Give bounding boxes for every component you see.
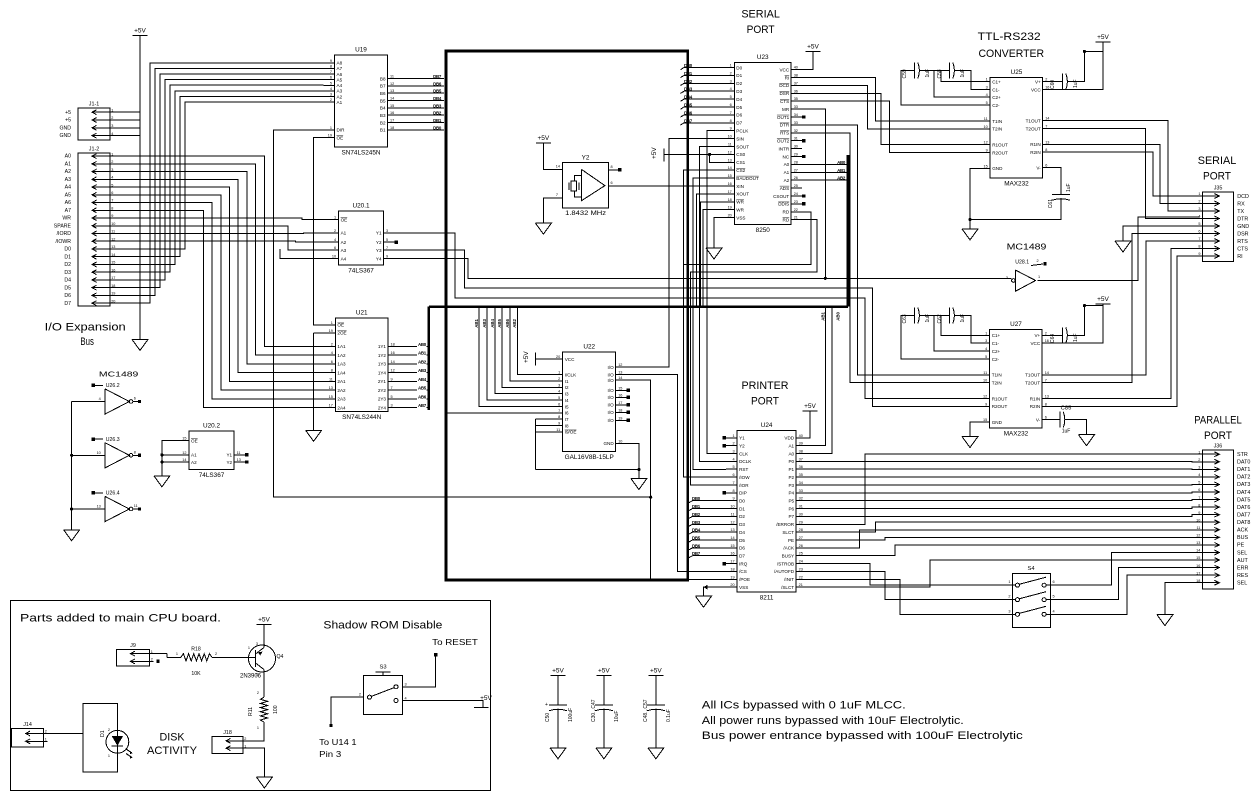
- svg-text:J14: J14: [23, 722, 32, 728]
- svg-text:D3: D3: [736, 89, 742, 94]
- svg-text:2: 2: [257, 691, 259, 695]
- wire U21 1Y to AB7: [399, 407, 417, 409]
- svg-text:CTS: CTS: [780, 99, 789, 104]
- svg-text:R1OUT: R1OUT: [992, 143, 1008, 148]
- svg-text:PORT: PORT: [1204, 430, 1232, 442]
- svg-text:1: 1: [176, 652, 178, 656]
- svg-text:20: 20: [556, 355, 560, 359]
- wire P2 to J36: [807, 476, 1199, 478]
- svg-text:C2+: C2+: [992, 349, 1001, 354]
- svg-text:C60: C60: [1050, 80, 1056, 89]
- svg-text:20: 20: [728, 214, 732, 218]
- svg-text:1uF: 1uF: [1073, 79, 1079, 88]
- svg-text:+5V: +5V: [804, 403, 816, 410]
- power +5V U23 CS0: [651, 147, 664, 162]
- svg-text:34: 34: [799, 481, 803, 485]
- svg-text:D7: D7: [736, 121, 742, 126]
- svg-text:D5: D5: [739, 538, 745, 543]
- svg-text:U25: U25: [1011, 69, 1023, 76]
- capacitors C63 C62 at U27: [901, 308, 979, 360]
- svg-text:I/O: I/O: [608, 365, 615, 370]
- svg-text:2N3906: 2N3906: [240, 674, 262, 680]
- svg-text:AB2: AB2: [837, 176, 846, 181]
- svg-text:P7: P7: [788, 514, 794, 519]
- svg-text:1.8432 MHz: 1.8432 MHz: [565, 210, 606, 217]
- svg-text:1A1: 1A1: [337, 344, 346, 349]
- svg-text:11: 11: [390, 75, 394, 79]
- svg-text:2: 2: [111, 160, 113, 164]
- wire AB4 tick to bus: [427, 380, 429, 382]
- svg-text:DAT6: DAT6: [1237, 505, 1250, 511]
- svg-text:CS1: CS1: [736, 160, 745, 165]
- svg-text:SPARE: SPARE: [54, 223, 72, 229]
- svg-text:DCD: DCD: [779, 83, 790, 88]
- svg-text:BUS: BUS: [1237, 535, 1248, 541]
- svg-text:U20.2: U20.2: [203, 423, 220, 430]
- svg-text:2: 2: [215, 652, 217, 656]
- svg-text:XIN: XIN: [736, 184, 744, 189]
- svg-text:19: 19: [728, 206, 732, 210]
- svg-text:AB4: AB4: [418, 377, 427, 382]
- svg-text:6: 6: [1045, 164, 1047, 168]
- svg-text:23: 23: [794, 200, 798, 204]
- svg-text:OUT1: OUT1: [777, 115, 790, 120]
- svg-text:3: 3: [111, 124, 113, 128]
- wire bus to U22 input 3: [495, 307, 552, 394]
- connector J14: [12, 722, 48, 747]
- wire U25 VCC to +5V: [1054, 42, 1103, 90]
- svg-text:2: 2: [359, 693, 361, 697]
- svg-text:I3: I3: [565, 392, 569, 397]
- svg-text:24: 24: [794, 192, 798, 196]
- net label AB3: [418, 368, 427, 373]
- wire DB6 to U24: [689, 548, 727, 550]
- svg-text:2A3: 2A3: [337, 397, 346, 402]
- svg-text:16: 16: [1045, 339, 1049, 343]
- svg-text:R18: R18: [191, 647, 201, 653]
- svg-text:26: 26: [799, 544, 803, 548]
- svg-text:PCLK: PCLK: [736, 129, 749, 134]
- svg-text:DB0: DB0: [684, 63, 693, 68]
- svg-text:+5V: +5V: [807, 43, 819, 50]
- wire U23 PCLK down to U24 CLK: [707, 131, 726, 454]
- svg-text:8: 8: [1045, 402, 1047, 406]
- svg-text:1: 1: [1038, 275, 1040, 279]
- label MC1489 right: [1007, 242, 1047, 252]
- svg-text:J35: J35: [1214, 186, 1223, 192]
- svg-text:29: 29: [794, 153, 798, 157]
- IC U23 8250 UART: [723, 54, 805, 234]
- svg-text:DB5: DB5: [433, 89, 442, 94]
- svg-text:27: 27: [794, 168, 798, 172]
- svg-text:2: 2: [1198, 458, 1200, 462]
- svg-text:DIR: DIR: [337, 128, 346, 133]
- svg-text:D0: D0: [736, 65, 742, 70]
- wire DB0 to U24: [689, 501, 727, 503]
- svg-text:9: 9: [558, 422, 560, 426]
- svg-text:DB1: DB1: [684, 71, 693, 76]
- svg-text:SEL: SEL: [1237, 581, 1247, 587]
- svg-text:D4: D4: [64, 278, 71, 284]
- svg-text:9: 9: [1198, 252, 1200, 256]
- svg-text:12: 12: [618, 363, 622, 367]
- svg-text:4: 4: [1053, 609, 1055, 613]
- svg-text:AB0: AB0: [837, 160, 846, 165]
- svg-text:D2: D2: [64, 262, 71, 268]
- svg-text:7: 7: [386, 246, 388, 250]
- svg-text:AB6: AB6: [418, 394, 427, 399]
- label DISK ACTIVITY: [147, 732, 197, 758]
- svg-text:11: 11: [329, 377, 333, 381]
- svg-text:2: 2: [108, 728, 110, 732]
- svg-text:GND: GND: [59, 133, 71, 139]
- wire U27 T2OUT to J35 pin6: [1053, 234, 1198, 383]
- svg-text:AB0: AB0: [836, 311, 841, 320]
- wire U23 RD to U24 IOW: [684, 212, 812, 477]
- svg-text:1: 1: [986, 78, 988, 82]
- svg-text:7: 7: [391, 386, 393, 390]
- svg-text:Y2: Y2: [226, 460, 232, 465]
- svg-text:DB1: DB1: [692, 504, 701, 509]
- capacitor C64: [1050, 327, 1079, 343]
- svg-text:14: 14: [618, 376, 622, 380]
- wire +5V to U22 VCC: [536, 358, 552, 360]
- svg-text:5: 5: [985, 355, 987, 359]
- wire U22 GND: [627, 443, 641, 478]
- svg-text:GND: GND: [1237, 224, 1249, 230]
- svg-text:DAT5: DAT5: [1237, 497, 1250, 503]
- svg-text:DIP: DIP: [739, 491, 747, 496]
- net label DB6: [433, 81, 442, 86]
- svg-text:DB4: DB4: [692, 528, 701, 533]
- ground Y2: [535, 223, 551, 234]
- wire J1-1 pin1 to +5V: [114, 111, 140, 113]
- svg-text:R2IN: R2IN: [1030, 150, 1040, 155]
- svg-text:A8: A8: [337, 61, 343, 66]
- svg-text:D6: D6: [739, 546, 745, 551]
- svg-text:A1: A1: [788, 443, 794, 448]
- svg-text:13: 13: [97, 505, 101, 509]
- svg-text:/SLCT: /SLCT: [781, 585, 794, 590]
- net label AB1: [418, 351, 427, 356]
- svg-text:DB7: DB7: [433, 74, 442, 79]
- svg-text:9: 9: [330, 59, 332, 63]
- svg-text:J1-1: J1-1: [89, 102, 100, 108]
- svg-text:12: 12: [728, 150, 732, 154]
- svg-text:10: 10: [983, 379, 987, 383]
- svg-text:DB3: DB3: [692, 520, 701, 525]
- svg-text:I/O: I/O: [608, 403, 615, 408]
- wire U19 B2 to DB1: [399, 121, 445, 123]
- capacitor C60: [1050, 74, 1079, 90]
- wire U23 SIN to U22 IO12: [627, 139, 724, 368]
- svg-text:C1+: C1+: [992, 333, 1001, 338]
- wire P3 to J36: [807, 483, 1199, 486]
- svg-text:26: 26: [794, 176, 798, 180]
- wire DB1 to U24: [689, 509, 727, 511]
- svg-text:DB4: DB4: [684, 95, 693, 100]
- net label DB1: [433, 118, 442, 123]
- svg-text:D3: D3: [64, 270, 71, 276]
- net label AB5 vertical: [497, 318, 502, 327]
- svg-text:17: 17: [390, 118, 394, 122]
- svg-text:+5V: +5V: [523, 351, 530, 363]
- svg-text:4: 4: [558, 390, 560, 394]
- svg-text:5: 5: [1198, 222, 1200, 226]
- svg-text:U20.1: U20.1: [353, 203, 370, 210]
- svg-text:11: 11: [1196, 526, 1200, 530]
- ground U26 inputs: [64, 530, 80, 541]
- svg-text:12: 12: [390, 82, 394, 86]
- label TTL-RS232 CONVERTER: [978, 31, 1044, 60]
- wire AB3 tick to bus: [427, 372, 429, 374]
- wire DB7 to U24: [689, 556, 727, 558]
- svg-text:1A3: 1A3: [337, 362, 346, 367]
- svg-text:+5V: +5V: [480, 695, 492, 702]
- svg-text:17: 17: [329, 404, 333, 408]
- svg-text:2Y4: 2Y4: [378, 405, 387, 410]
- svg-text:R2OUT: R2OUT: [992, 150, 1008, 155]
- svg-text:P5: P5: [788, 498, 794, 503]
- svg-text:11: 11: [728, 143, 732, 147]
- svg-text:1: 1: [111, 108, 113, 112]
- ground J35: [1115, 241, 1131, 252]
- wire J1-1 pin3 to GND: [114, 127, 140, 129]
- svg-text:17: 17: [730, 560, 734, 564]
- svg-text:VCC: VCC: [565, 357, 575, 362]
- net label DB1 U23: [684, 71, 693, 76]
- svg-text:18: 18: [618, 408, 622, 412]
- net label AB1 vertical U24: [820, 311, 825, 320]
- svg-text:5: 5: [558, 396, 560, 400]
- svg-text:C30...C47: C30...C47: [591, 699, 597, 722]
- net label AB4: [418, 377, 427, 382]
- svg-text:B7: B7: [380, 84, 386, 89]
- svg-text:C1-: C1-: [992, 341, 1000, 346]
- wire D5 J1-2 to U19: [114, 74, 324, 288]
- wire R18 to Q4 base: [212, 656, 256, 658]
- ground U25: [962, 229, 978, 240]
- svg-text:1A4: 1A4: [337, 370, 346, 375]
- svg-text:2: 2: [330, 98, 332, 102]
- svg-text:21: 21: [799, 583, 803, 587]
- wire to U26.4 input: [70, 507, 105, 510]
- wire J35 pin5 to ground: [1123, 226, 1199, 241]
- svg-text:DB3: DB3: [433, 103, 442, 108]
- svg-text:5: 5: [391, 395, 393, 399]
- wire C64 to +5V: [1067, 304, 1103, 335]
- net label DB5 U24: [692, 535, 701, 540]
- wire U23 WR to bus: [703, 210, 723, 307]
- svg-text:U19: U19: [355, 47, 367, 54]
- svg-text:19: 19: [328, 134, 332, 138]
- svg-text:14: 14: [1045, 117, 1049, 121]
- net label DB2 U24: [692, 512, 701, 517]
- label To U14.1 Pin 3: [319, 737, 357, 759]
- svg-text:4: 4: [985, 347, 987, 351]
- power +5V U24: [803, 403, 818, 411]
- svg-text:12: 12: [1196, 534, 1200, 538]
- svg-text:P0: P0: [788, 459, 794, 464]
- svg-text:5: 5: [1053, 595, 1055, 599]
- svg-text:4: 4: [732, 457, 734, 461]
- svg-text:1: 1: [248, 646, 250, 650]
- wire A4 J1-2 to U21: [114, 187, 324, 381]
- svg-text:DAT8: DAT8: [1237, 520, 1250, 526]
- svg-text:31: 31: [799, 505, 803, 509]
- svg-text:1: 1: [111, 152, 113, 156]
- svg-text:2: 2: [45, 730, 47, 734]
- svg-text:4: 4: [331, 351, 333, 355]
- svg-text:21: 21: [794, 216, 798, 220]
- svg-text:P6: P6: [788, 506, 794, 511]
- svg-text:R2IN: R2IN: [1030, 404, 1040, 409]
- power +5V S3: [474, 695, 493, 707]
- svg-text:/IORD: /IORD: [57, 231, 72, 237]
- svg-text:R2OUT: R2OUT: [992, 404, 1008, 409]
- svg-text:CLK: CLK: [739, 451, 749, 456]
- ground U27: [962, 437, 978, 448]
- svg-text:I/O Expansion: I/O Expansion: [45, 322, 126, 334]
- svg-text:RI: RI: [1237, 254, 1242, 260]
- svg-text:12: 12: [182, 451, 186, 455]
- net label DB4: [433, 96, 442, 101]
- svg-text:RES: RES: [1237, 573, 1248, 579]
- svg-text:D1: D1: [100, 730, 106, 737]
- svg-text:RTS: RTS: [780, 131, 789, 136]
- svg-text:A5: A5: [337, 77, 343, 82]
- svg-text:Y2: Y2: [582, 155, 590, 162]
- Y2 pin8 nc: [609, 165, 622, 172]
- svg-text:3: 3: [1198, 466, 1200, 470]
- wire U24 ACK to J36 pin11: [807, 530, 1198, 548]
- wire U24 INIT to S4 pin3: [807, 579, 1008, 614]
- wire U28.1 output to J35 pin4: [1037, 217, 1199, 280]
- svg-text:6: 6: [611, 181, 613, 185]
- svg-text:CSOUT: CSOUT: [773, 194, 789, 199]
- svg-text:DB5: DB5: [684, 103, 693, 108]
- svg-text:2: 2: [732, 442, 734, 446]
- svg-text:U26.4: U26.4: [106, 491, 120, 497]
- switch S4: [1008, 566, 1054, 627]
- wire S3 pin3 to RESET: [402, 653, 437, 687]
- net label AB1 U23: [837, 168, 846, 173]
- svg-text:8: 8: [1198, 503, 1200, 507]
- svg-text:A4: A4: [337, 83, 343, 88]
- svg-text:D0: D0: [739, 498, 745, 503]
- svg-text:Y3: Y3: [376, 248, 382, 253]
- svg-text:2A1: 2A1: [337, 379, 346, 384]
- wire U23 XOUT down to bus: [697, 194, 724, 307]
- svg-text:I8: I8: [565, 423, 569, 428]
- svg-text:AB3: AB3: [482, 318, 487, 327]
- svg-text:2: 2: [334, 229, 336, 233]
- svg-text:CONVERTER: CONVERTER: [978, 48, 1044, 60]
- connector J35 serial port: [1198, 186, 1249, 262]
- wire U23 CS1 branch: [708, 153, 723, 163]
- svg-text:31: 31: [794, 137, 798, 141]
- net label DB3 U23: [684, 87, 693, 92]
- svg-text:A1: A1: [191, 453, 197, 458]
- svg-text:9: 9: [111, 214, 113, 218]
- svg-text:To U14 1: To U14 1: [319, 737, 357, 747]
- svg-text:A6: A6: [65, 200, 71, 206]
- svg-text:+5V: +5V: [1097, 34, 1109, 41]
- wire U24 AUTOFD to S4 pin2: [807, 571, 1008, 599]
- svg-text:4: 4: [334, 238, 336, 242]
- resistor R18: [176, 647, 217, 678]
- svg-text:DB2: DB2: [692, 512, 701, 517]
- svg-text:2: 2: [1008, 595, 1010, 599]
- net label AB2: [418, 359, 427, 364]
- svg-text:3: 3: [985, 339, 987, 343]
- svg-text:VSS: VSS: [739, 585, 748, 590]
- svg-text:16: 16: [618, 393, 622, 397]
- wire D2 J1-2 to U19: [114, 91, 324, 265]
- net label AB1 vertical: [474, 318, 479, 327]
- svg-text:D1: D1: [64, 254, 71, 260]
- svg-text:5: 5: [111, 183, 113, 187]
- net label DB6 U24: [692, 543, 701, 548]
- svg-text:2A2: 2A2: [337, 388, 346, 393]
- ground C85: [1079, 435, 1095, 446]
- svg-text:2: 2: [244, 737, 246, 741]
- svg-text:3: 3: [1006, 276, 1008, 280]
- svg-text:3: 3: [405, 683, 407, 687]
- svg-text:D1: D1: [739, 506, 745, 511]
- svg-text:T2IN: T2IN: [992, 127, 1002, 132]
- svg-text:D5: D5: [64, 285, 71, 291]
- svg-text:PRINTER: PRINTER: [742, 380, 789, 392]
- svg-text:9: 9: [730, 127, 732, 131]
- wire U19 B8 to DB7: [399, 78, 445, 80]
- svg-text:DB4: DB4: [433, 96, 442, 101]
- wire U20.2 A2 junction: [160, 460, 178, 463]
- wire U23 CS2 down to bus: [683, 170, 723, 306]
- svg-text:/IOR: /IOR: [739, 483, 749, 488]
- svg-text:7: 7: [111, 199, 113, 203]
- svg-text:15: 15: [618, 386, 622, 390]
- wire DB4 to U23 D4: [681, 99, 724, 101]
- svg-text:16: 16: [728, 182, 732, 186]
- svg-text:J9: J9: [130, 643, 136, 649]
- svg-text:9: 9: [1198, 511, 1200, 515]
- svg-text:7: 7: [732, 481, 734, 485]
- wire U22 IO13 to U24 CS: [627, 375, 726, 572]
- svg-text:AB2: AB2: [512, 318, 517, 327]
- svg-text:Y4: Y4: [376, 256, 382, 261]
- svg-text:15: 15: [730, 544, 734, 548]
- net label DB5: [433, 89, 442, 94]
- wire +5V to Q4 emitter: [263, 624, 265, 646]
- svg-text:5: 5: [1198, 481, 1200, 485]
- bus AB horizontal: [429, 305, 848, 308]
- svg-text:B2: B2: [380, 120, 386, 125]
- svg-text:P1: P1: [788, 467, 794, 472]
- svg-text:CS0: CS0: [736, 152, 745, 157]
- svg-text:I/O: I/O: [608, 395, 615, 400]
- svg-text:13: 13: [390, 89, 394, 93]
- svg-text:V+: V+: [1035, 79, 1041, 84]
- svg-text:22: 22: [799, 575, 803, 579]
- svg-text:2: 2: [1037, 259, 1039, 263]
- svg-text:I1: I1: [565, 379, 569, 384]
- svg-text:15: 15: [983, 164, 987, 168]
- svg-text:16: 16: [1045, 86, 1049, 90]
- wire P0 to J36: [807, 460, 1199, 462]
- svg-text:11: 11: [984, 117, 988, 121]
- svg-text:1: 1: [108, 754, 110, 758]
